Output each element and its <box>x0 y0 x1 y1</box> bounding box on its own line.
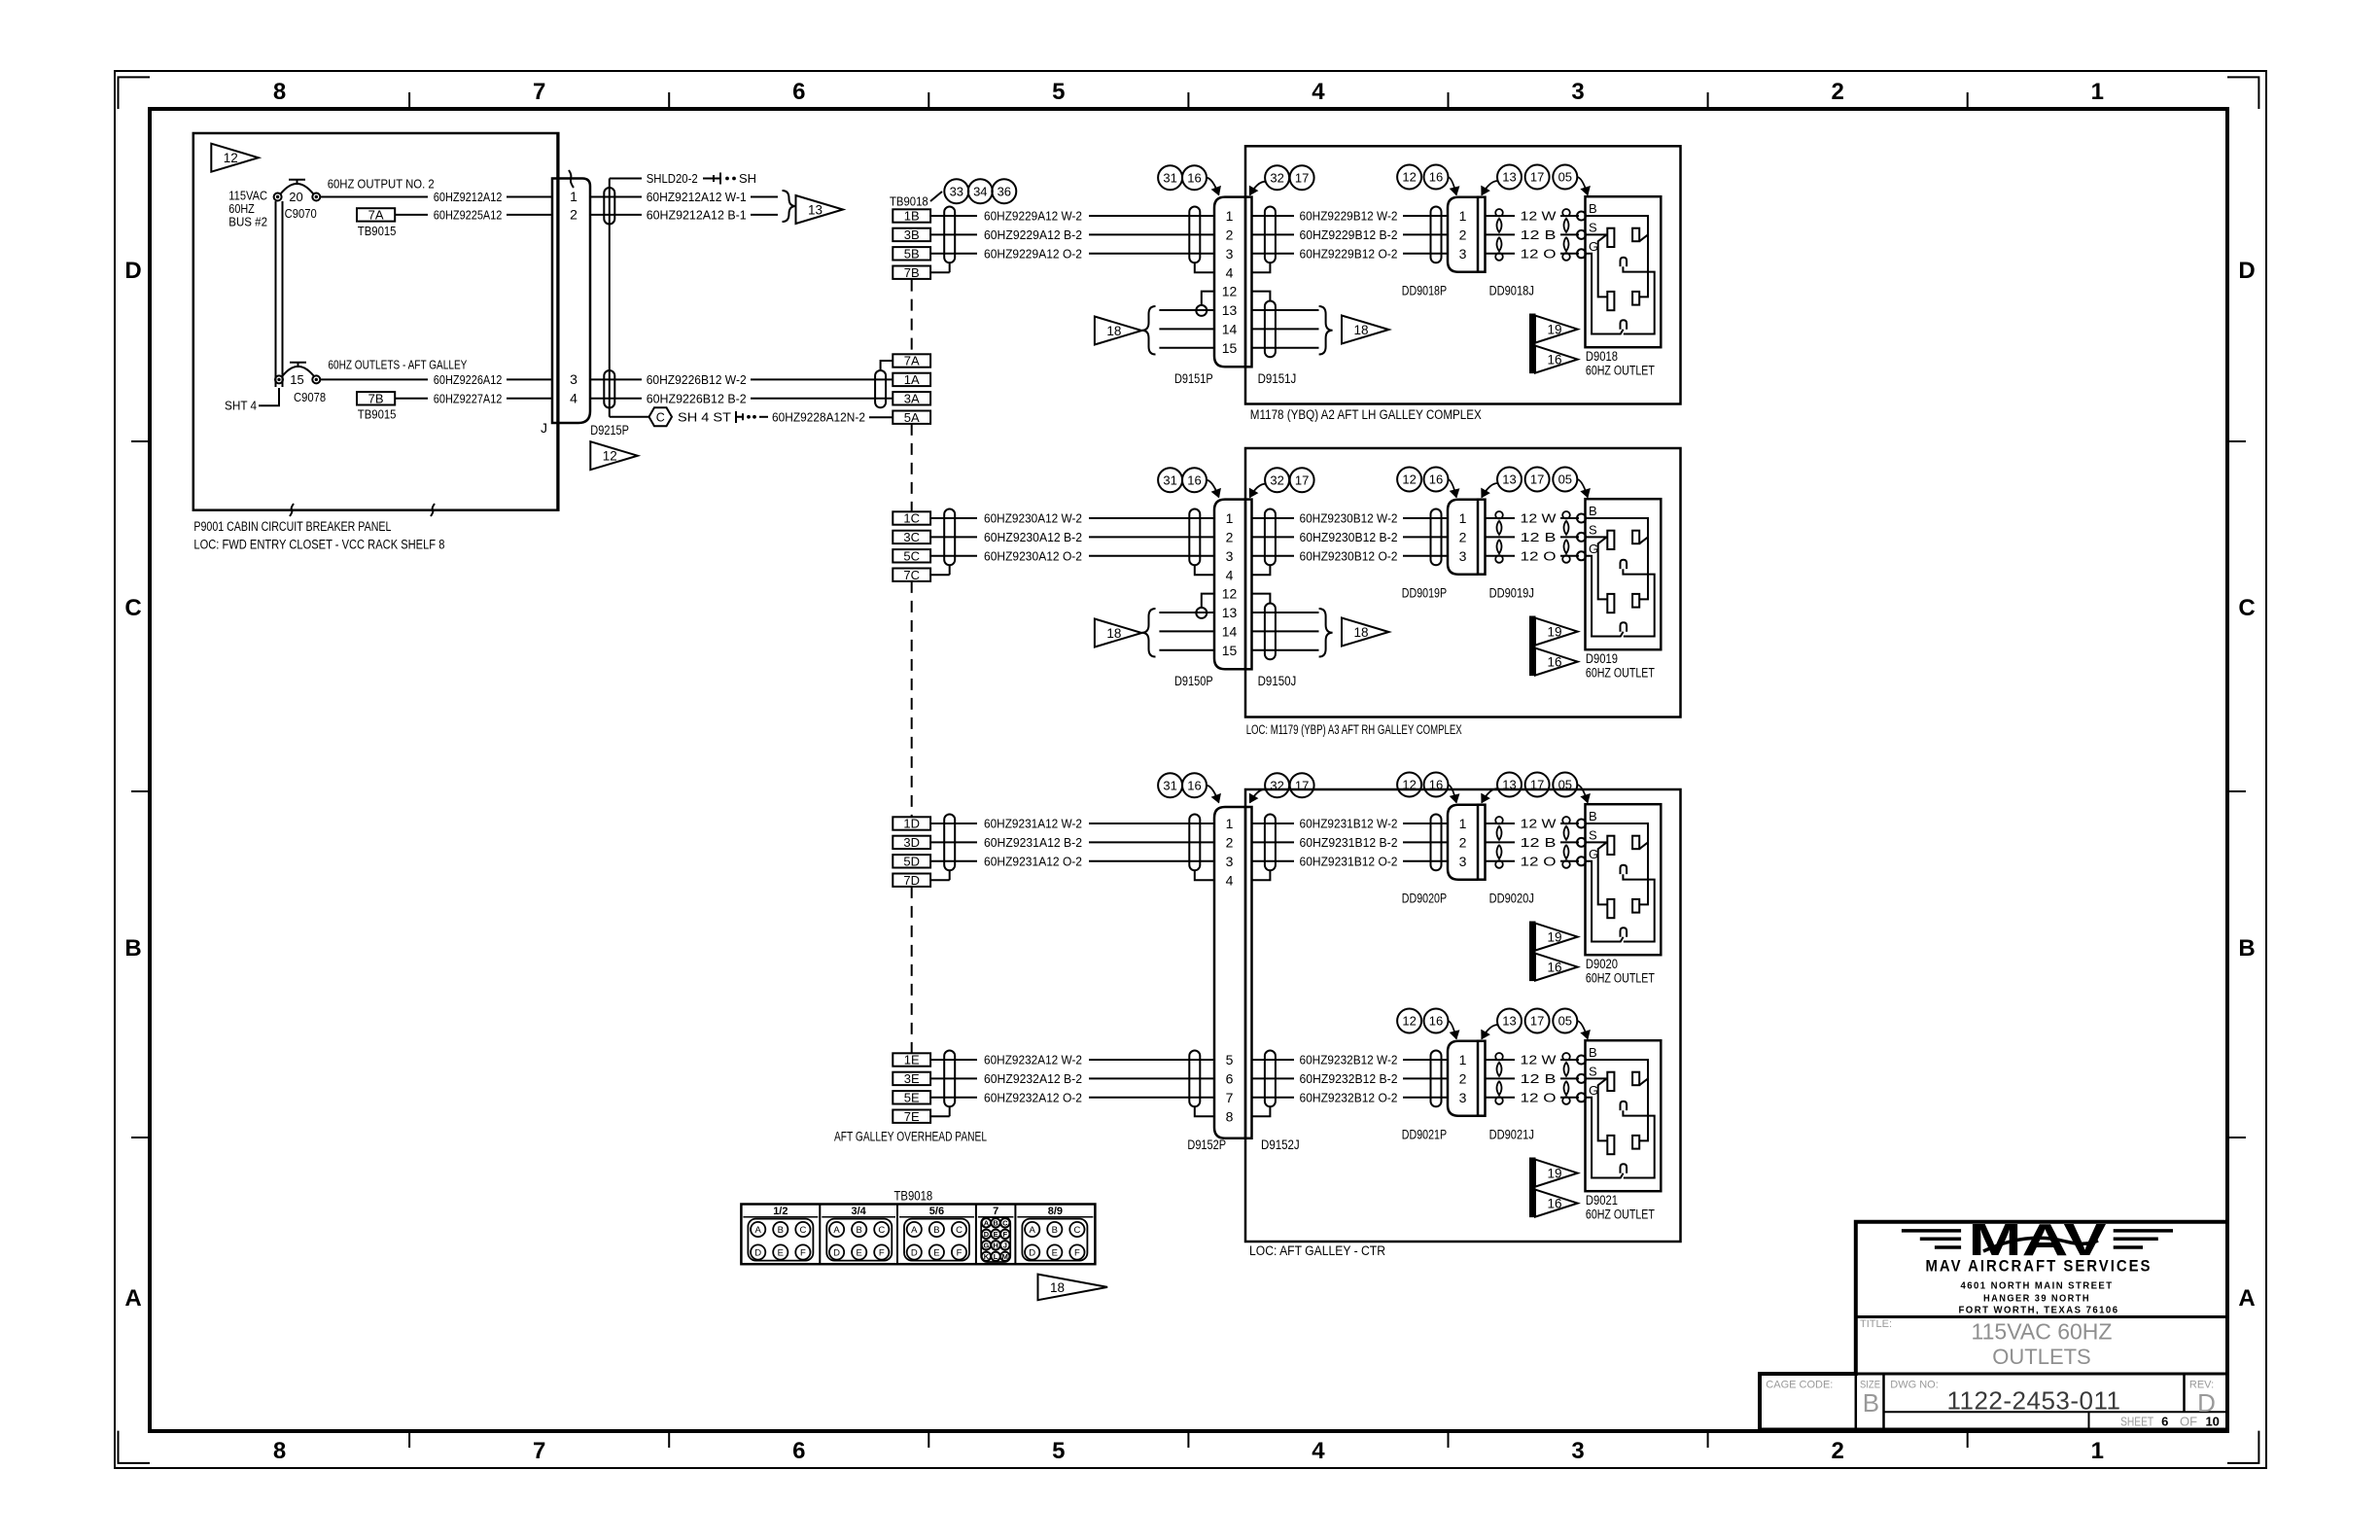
svg-text:16: 16 <box>1547 655 1561 670</box>
svg-text:60HZ9230B12 W-2: 60HZ9230B12 W-2 <box>1300 511 1398 526</box>
svg-text:1D: 1D <box>903 817 920 831</box>
svg-text:12: 12 <box>1402 1014 1416 1029</box>
svg-text:16: 16 <box>1547 1197 1561 1211</box>
svg-text:17: 17 <box>1530 472 1544 487</box>
terminal 7A <box>892 354 930 367</box>
svg-text:15: 15 <box>290 372 303 387</box>
svg-text:31: 31 <box>1163 472 1176 487</box>
wires 60HZ9231A12 group D <box>930 822 977 824</box>
svg-text:DWG NO:: DWG NO: <box>1890 1380 1939 1391</box>
svg-text:36: 36 <box>997 184 1011 198</box>
svg-text:7A: 7A <box>368 208 384 223</box>
svg-text:E: E <box>857 1247 862 1258</box>
svg-text:B: B <box>1863 1388 1879 1417</box>
svg-text:5A: 5A <box>904 410 920 425</box>
svg-text:1: 1 <box>1226 510 1234 526</box>
svg-text:17: 17 <box>1530 778 1544 792</box>
svg-text:18: 18 <box>1353 323 1368 337</box>
svg-text:4: 4 <box>1226 264 1234 280</box>
note flag 18 (D9150 right) <box>1342 618 1389 647</box>
svg-text:18: 18 <box>1050 1280 1065 1295</box>
svg-text:DD9020P: DD9020P <box>1402 892 1447 906</box>
galley complex box M1179 <box>1245 448 1681 717</box>
svg-text:1: 1 <box>1459 510 1467 526</box>
svg-text:12 W: 12 W <box>1521 1053 1557 1067</box>
svg-text:BUS #2: BUS #2 <box>228 215 267 229</box>
svg-text:M: M <box>1002 1252 1008 1261</box>
svg-text:3/4: 3/4 <box>852 1206 867 1217</box>
svg-text:32: 32 <box>1270 778 1283 792</box>
svg-text:60HZ9231B12 B-2: 60HZ9231B12 B-2 <box>1300 835 1398 850</box>
svg-text:60HZ9212A12: 60HZ9212A12 <box>434 190 503 204</box>
wire SHLD20-2 SH <box>610 178 642 180</box>
svg-text:10: 10 <box>2205 1415 2219 1429</box>
svg-text:D9150J: D9150J <box>1258 674 1297 688</box>
svg-text:8: 8 <box>273 1438 286 1464</box>
svg-text:1: 1 <box>1459 1052 1467 1067</box>
svg-text:7: 7 <box>533 79 545 105</box>
svg-text:C9070: C9070 <box>285 206 317 221</box>
svg-text:12 B: 12 B <box>1521 835 1557 850</box>
svg-text:1122-2453-011: 1122-2453-011 <box>1946 1386 2120 1416</box>
callouts 31 16 32 17 (D9151) <box>1158 165 1182 190</box>
shield J-side group B <box>1265 207 1276 263</box>
svg-text:7E: 7E <box>904 1109 920 1124</box>
svg-text:17: 17 <box>1530 1014 1544 1029</box>
svg-text:4: 4 <box>1226 872 1234 888</box>
note flags 19 16 (D9021) <box>1530 1158 1536 1217</box>
svg-text:60HZ OUTLET: 60HZ OUTLET <box>1586 364 1655 378</box>
svg-text:16: 16 <box>1429 778 1443 792</box>
svg-text:C: C <box>2238 595 2255 621</box>
P9001 cabin circuit breaker panel box <box>193 133 559 510</box>
svg-text:D: D <box>2197 1388 2216 1417</box>
callouts 12 16 13 17 05 (DD9019) <box>1397 468 1421 492</box>
terminal 5A <box>892 411 930 424</box>
svg-text:D: D <box>1029 1247 1035 1258</box>
svg-text:D9019: D9019 <box>1586 651 1618 666</box>
svg-text:H: H <box>993 1242 997 1250</box>
svg-text:3: 3 <box>1459 1090 1467 1105</box>
svg-text:E: E <box>933 1247 939 1258</box>
note flags 19 16 (D9019) <box>1530 616 1536 676</box>
note flag 18 (TB9018) <box>1038 1275 1108 1301</box>
svg-text:60HZ9229B12 W-2: 60HZ9229B12 W-2 <box>1300 209 1398 224</box>
circuit breaker C9070 <box>274 193 282 201</box>
svg-text:7B: 7B <box>904 265 920 280</box>
svg-text:5: 5 <box>1052 1438 1065 1464</box>
svg-text:16: 16 <box>1187 778 1201 792</box>
svg-text:LOC: M1179 (YBP) A3 AFT RH GA: LOC: M1179 (YBP) A3 AFT RH GALLEY COMPLE… <box>1246 722 1462 737</box>
svg-text:12 O: 12 O <box>1521 854 1557 868</box>
svg-text:F: F <box>1003 1230 1008 1239</box>
svg-text:33: 33 <box>950 184 963 198</box>
svg-text:OUTLETS: OUTLETS <box>1992 1345 2090 1369</box>
svg-text:60HZ9231A12 B-2: 60HZ9231A12 B-2 <box>984 835 1082 850</box>
svg-text:D: D <box>754 1247 761 1258</box>
svg-text:5B: 5B <box>904 247 920 262</box>
svg-text:C: C <box>1073 1225 1080 1236</box>
svg-text:G: G <box>1589 1083 1598 1098</box>
svg-text:CAGE CODE:: CAGE CODE: <box>1766 1380 1833 1391</box>
svg-text:B: B <box>1589 201 1597 216</box>
svg-text:3: 3 <box>1571 1438 1584 1464</box>
svg-text:60HZ OUTLET: 60HZ OUTLET <box>1586 1207 1655 1222</box>
svg-text:DD9019J: DD9019J <box>1489 586 1534 601</box>
svg-text:4: 4 <box>1226 567 1234 582</box>
svg-text:4: 4 <box>570 391 577 406</box>
pins 12-15 J-side D9151 <box>1252 292 1271 301</box>
svg-text:16: 16 <box>1429 1014 1443 1029</box>
callouts 12 16 13 17 05 (DD9018) <box>1397 165 1421 190</box>
svg-text:G: G <box>1589 847 1598 861</box>
wire 60HZ9227A12 (pin 4) <box>395 398 428 400</box>
svg-text:15: 15 <box>1222 340 1238 356</box>
svg-text:B: B <box>1589 504 1597 518</box>
svg-text:2: 2 <box>1459 835 1467 851</box>
svg-text:60HZ9230A12 W-2: 60HZ9230A12 W-2 <box>984 511 1082 526</box>
svg-text:B: B <box>778 1225 784 1236</box>
svg-text:3: 3 <box>1459 246 1467 262</box>
svg-text:A: A <box>911 1225 918 1236</box>
svg-text:12: 12 <box>1222 284 1238 299</box>
galley complex box AFT GALLEY CTR <box>1245 789 1681 1242</box>
svg-text:F: F <box>879 1247 885 1258</box>
svg-text:D9215P: D9215P <box>590 423 629 437</box>
terminal strip section 7 grid <box>981 1217 1010 1262</box>
note flags 19 16 (D9020) <box>1530 922 1536 981</box>
shield drain D9215P <box>609 179 611 417</box>
svg-text:60HZ9229B12 O-2: 60HZ9229B12 O-2 <box>1300 246 1398 261</box>
wire 60HZ9226A12 (pin 3) <box>320 378 428 380</box>
svg-text:5: 5 <box>1052 79 1065 105</box>
svg-text:D: D <box>124 258 141 284</box>
svg-text:7: 7 <box>1226 1090 1234 1105</box>
svg-text:12 B: 12 B <box>1521 1071 1557 1086</box>
wire 60HZ9212A12 (pin 1) <box>320 196 428 198</box>
svg-text:3A: 3A <box>904 392 920 406</box>
svg-text:12 B: 12 B <box>1521 227 1557 242</box>
svg-text:LOC: AFT GALLEY - CTR: LOC: AFT GALLEY - CTR <box>1249 1243 1385 1258</box>
svg-text:12 W: 12 W <box>1521 511 1557 526</box>
svg-text:DD9019P: DD9019P <box>1402 586 1447 601</box>
svg-text:12 W: 12 W <box>1521 817 1557 831</box>
svg-text:19: 19 <box>1547 625 1561 640</box>
svg-text:60HZ9226B12 W-2: 60HZ9226B12 W-2 <box>647 372 747 387</box>
svg-text:7C: 7C <box>903 568 920 582</box>
svg-text:8/9: 8/9 <box>1048 1206 1063 1217</box>
pins 12-15 J-side D9150 <box>1252 594 1271 604</box>
svg-text:S: S <box>1589 522 1597 537</box>
svg-text:S: S <box>1589 827 1597 842</box>
shield J-side group C <box>1265 509 1276 566</box>
svg-text:12 B: 12 B <box>1521 530 1557 544</box>
svg-text:A: A <box>2238 1285 2255 1312</box>
svg-text:F: F <box>800 1247 806 1258</box>
svg-text:1B: 1B <box>904 209 920 224</box>
svg-text:60HZ9229A12 O-2: 60HZ9229A12 O-2 <box>984 246 1082 261</box>
note flags 19 16 (D9018) <box>1530 314 1536 373</box>
bundle callout 36 <box>992 179 1016 203</box>
svg-text:5/6: 5/6 <box>929 1206 944 1217</box>
svg-text:E: E <box>778 1247 784 1258</box>
pins 12-15 wiring D9150 <box>1202 594 1214 608</box>
svg-text:60HZ9229A12 W-2: 60HZ9229A12 W-2 <box>984 209 1082 224</box>
outlet D9018 <box>1581 215 1583 217</box>
svg-text:8: 8 <box>1226 1108 1234 1124</box>
svg-text:1: 1 <box>1459 208 1467 224</box>
svg-text:1/2: 1/2 <box>773 1206 787 1217</box>
svg-text:18: 18 <box>1106 324 1121 338</box>
svg-text:F: F <box>1074 1247 1080 1258</box>
svg-text:60HZ9231B12 W-2: 60HZ9231B12 W-2 <box>1300 817 1398 831</box>
svg-text:60HZ9226A12: 60HZ9226A12 <box>434 372 503 387</box>
svg-text:6: 6 <box>1226 1071 1234 1087</box>
svg-text:1A: 1A <box>904 372 920 387</box>
svg-text:15: 15 <box>1222 643 1238 658</box>
svg-text:12: 12 <box>603 449 617 464</box>
svg-text:7: 7 <box>533 1438 545 1464</box>
circuit breaker C9078 <box>275 375 283 383</box>
terminals 1D 3D 5D 7D <box>892 817 930 829</box>
svg-text:6: 6 <box>792 79 805 105</box>
svg-text:1: 1 <box>1226 816 1234 831</box>
svg-text:5: 5 <box>1226 1052 1234 1067</box>
svg-text:B: B <box>124 935 141 962</box>
svg-text:SH: SH <box>739 171 756 186</box>
svg-text:3: 3 <box>1226 854 1234 869</box>
svg-text:D9150P: D9150P <box>1174 674 1213 688</box>
svg-text:2: 2 <box>1459 530 1467 545</box>
svg-text:DD9018J: DD9018J <box>1489 284 1534 298</box>
note flag 12 (panel) <box>211 144 258 172</box>
svg-text:MAV AIRCRAFT SERVICES: MAV AIRCRAFT SERVICES <box>1926 1258 2152 1276</box>
svg-text:60HZ9232A12 B-2: 60HZ9232A12 B-2 <box>984 1071 1082 1086</box>
svg-text:60HZ9231A12 O-2: 60HZ9231A12 O-2 <box>984 854 1082 868</box>
svg-text:8: 8 <box>273 79 286 105</box>
svg-text:C: C <box>878 1225 885 1236</box>
svg-text:DD9018P: DD9018P <box>1402 284 1447 298</box>
svg-text:1: 1 <box>2091 79 2104 105</box>
svg-text:60HZ9230B12 B-2: 60HZ9230B12 B-2 <box>1300 530 1398 544</box>
splice C hexagon <box>610 416 649 418</box>
svg-text:17: 17 <box>1295 170 1309 185</box>
svg-text:12: 12 <box>1222 586 1238 602</box>
svg-text:17: 17 <box>1295 472 1309 487</box>
svg-text:60HZ9229A12 B-2: 60HZ9229A12 B-2 <box>984 227 1082 242</box>
svg-text:12 O: 12 O <box>1521 246 1557 261</box>
svg-text:16: 16 <box>1429 472 1443 487</box>
callouts 12 16 13 17 05 (DD9020) <box>1397 773 1421 797</box>
terminals 1C 3C 5C 7C <box>892 511 930 524</box>
svg-text:60HZ9232A12 W-2: 60HZ9232A12 W-2 <box>984 1053 1082 1067</box>
svg-text:34: 34 <box>973 184 987 198</box>
svg-text:7B: 7B <box>368 392 384 406</box>
svg-text:F: F <box>957 1247 962 1258</box>
svg-text:G: G <box>983 1242 989 1250</box>
svg-text:60HZ9232B12 B-2: 60HZ9232B12 B-2 <box>1300 1071 1398 1086</box>
svg-text:13: 13 <box>808 203 822 218</box>
svg-text:5D: 5D <box>903 855 920 869</box>
svg-text:3: 3 <box>1226 548 1234 564</box>
svg-text:B: B <box>1589 1045 1597 1060</box>
callouts 12 16 13 17 05 (DD9021) <box>1397 1009 1421 1033</box>
svg-text:FORT WORTH, TEXAS 76106: FORT WORTH, TEXAS 76106 <box>1959 1305 2119 1316</box>
svg-text:60HZ9227A12: 60HZ9227A12 <box>434 391 503 405</box>
svg-text:6: 6 <box>2161 1415 2168 1429</box>
svg-text:LOC: FWD ENTRY CLOSET - VCC RA: LOC: FWD ENTRY CLOSET - VCC RACK SHELF 8 <box>193 538 444 552</box>
svg-text:16: 16 <box>1547 961 1561 975</box>
svg-text:12: 12 <box>1402 472 1416 487</box>
svg-text:C: C <box>956 1225 962 1236</box>
svg-text:2: 2 <box>1226 227 1234 243</box>
svg-text:13: 13 <box>1222 302 1238 318</box>
svg-text:D: D <box>833 1247 840 1258</box>
svg-text:A: A <box>984 1219 990 1228</box>
svg-text:60HZ9231A12 W-2: 60HZ9231A12 W-2 <box>984 817 1082 831</box>
svg-text:D9152J: D9152J <box>1261 1137 1300 1152</box>
svg-text:60HZ OUTLET: 60HZ OUTLET <box>1586 666 1655 681</box>
wire 60HZ9225A12 (pin 2) <box>395 214 428 216</box>
DD9020 connectors and wires <box>1252 822 1295 824</box>
svg-text:12: 12 <box>1402 170 1416 185</box>
svg-text:60HZ9212A12 B-1: 60HZ9212A12 B-1 <box>647 207 747 222</box>
svg-text:17: 17 <box>1295 778 1309 792</box>
svg-text:2: 2 <box>1226 835 1234 851</box>
outlet D9020 <box>1586 804 1662 955</box>
svg-text:2: 2 <box>1226 530 1234 545</box>
svg-text:18: 18 <box>1106 626 1121 641</box>
svg-text:7A: 7A <box>904 354 920 368</box>
svg-text:4601 NORTH MAIN STREET: 4601 NORTH MAIN STREET <box>1961 1280 2114 1292</box>
svg-text:OF: OF <box>2180 1415 2197 1429</box>
svg-text:6: 6 <box>792 1438 805 1464</box>
brace pins 1-2 <box>783 191 796 222</box>
svg-text:16: 16 <box>1429 170 1443 185</box>
svg-text:DD9020J: DD9020J <box>1489 892 1534 906</box>
wires 60HZ9232A12 group E <box>930 1059 977 1061</box>
svg-text:60HZ9229B12 B-2: 60HZ9229B12 B-2 <box>1300 227 1398 242</box>
outlet D9021 <box>1586 1040 1662 1191</box>
svg-text:L: L <box>994 1252 998 1261</box>
svg-text:60HZ OUTLETS - AFT GALLEY: 60HZ OUTLETS - AFT GALLEY <box>328 358 467 372</box>
svg-text:13: 13 <box>1502 778 1516 792</box>
svg-text:32: 32 <box>1270 170 1283 185</box>
connector D9150P/D9150J <box>1214 500 1245 670</box>
svg-text:2: 2 <box>1459 1071 1467 1087</box>
svg-text:A: A <box>1030 1225 1036 1236</box>
svg-text:20: 20 <box>289 190 302 204</box>
svg-text:60HZ9228A12N-2: 60HZ9228A12N-2 <box>772 409 865 424</box>
terminals 1B 3B 5B 7B <box>892 209 930 222</box>
svg-text:1: 1 <box>2091 1438 2104 1464</box>
svg-text:60HZ9232A12 O-2: 60HZ9232A12 O-2 <box>984 1090 1082 1104</box>
shield J-side group D <box>1265 815 1276 871</box>
svg-text:2: 2 <box>1831 79 1843 105</box>
svg-text:19: 19 <box>1547 930 1561 945</box>
svg-text:E: E <box>1052 1247 1058 1258</box>
DD9019 connectors and wires <box>1252 517 1295 519</box>
svg-text:C: C <box>1002 1219 1008 1228</box>
note flag 13 <box>796 195 844 224</box>
svg-text:3C: 3C <box>903 530 920 544</box>
terminal block TB9015 7A <box>357 208 395 221</box>
svg-text:C: C <box>799 1225 806 1236</box>
svg-text:G: G <box>1589 239 1598 254</box>
svg-text:12 O: 12 O <box>1521 548 1557 563</box>
svg-text:C9078: C9078 <box>294 390 326 404</box>
svg-text:HANGER 39 NORTH: HANGER 39 NORTH <box>1983 1292 2090 1304</box>
svg-text:S: S <box>1589 1064 1597 1078</box>
svg-text:AFT GALLEY OVERHEAD PANEL: AFT GALLEY OVERHEAD PANEL <box>834 1129 987 1143</box>
svg-text:16: 16 <box>1547 353 1561 367</box>
svg-text:SHT 4: SHT 4 <box>225 399 257 413</box>
svg-text:13: 13 <box>1222 605 1238 620</box>
svg-text:60HZ OUTPUT NO. 2: 60HZ OUTPUT NO. 2 <box>328 176 435 191</box>
terminal block TB9015 7B <box>357 392 395 404</box>
svg-text:5C: 5C <box>903 549 920 564</box>
svg-text:B: B <box>1589 809 1597 823</box>
connector D9151P/D9151J <box>1214 197 1245 367</box>
svg-text:16: 16 <box>1187 170 1201 185</box>
svg-text:19: 19 <box>1547 1167 1561 1181</box>
note flag 18 (D9151 left) <box>1095 317 1142 345</box>
terminal 1A <box>892 373 930 386</box>
shield ferrule group A <box>875 370 886 407</box>
svg-text:C: C <box>656 410 665 424</box>
svg-text:12 W: 12 W <box>1521 209 1557 224</box>
svg-text:60HZ9230A12 O-2: 60HZ9230A12 O-2 <box>984 548 1082 563</box>
note flag 12 (below D9215P) <box>590 441 638 470</box>
svg-text:12: 12 <box>224 151 238 165</box>
svg-text:3D: 3D <box>903 835 920 850</box>
svg-text:D: D <box>984 1230 990 1239</box>
svg-text:31: 31 <box>1163 170 1176 185</box>
svg-text:60HZ9225A12: 60HZ9225A12 <box>434 207 503 222</box>
svg-text:TB9018: TB9018 <box>890 194 928 209</box>
svg-text:D9151P: D9151P <box>1174 371 1213 386</box>
svg-text:TITLE:: TITLE: <box>1860 1318 1892 1330</box>
svg-text:7D: 7D <box>903 873 920 888</box>
connector D9215P <box>552 179 590 424</box>
svg-text:17: 17 <box>1530 170 1544 185</box>
svg-text:4: 4 <box>1312 1438 1325 1464</box>
svg-text:2: 2 <box>1831 1438 1843 1464</box>
svg-text:13: 13 <box>1502 170 1516 185</box>
svg-text:SHLD20-2: SHLD20-2 <box>647 171 698 186</box>
svg-text:3: 3 <box>1571 79 1584 105</box>
svg-text:7: 7 <box>993 1206 998 1217</box>
svg-text:60HZ9212A12 W-1: 60HZ9212A12 W-1 <box>647 190 747 204</box>
svg-text:12 O: 12 O <box>1521 1090 1557 1104</box>
DD9021 connectors and wires <box>1252 1059 1295 1061</box>
terminals 1E 3E 5E 7E <box>892 1053 930 1066</box>
svg-text:1E: 1E <box>904 1053 920 1067</box>
terminal 3A <box>892 392 930 404</box>
svg-text:60HZ9226B12 B-2: 60HZ9226B12 B-2 <box>647 391 747 405</box>
svg-text:18: 18 <box>1353 625 1368 640</box>
svg-text:C: C <box>124 595 141 621</box>
svg-text:G: G <box>1589 542 1598 556</box>
wire 60HZ9212A12 B-1 <box>590 214 642 216</box>
svg-text:1: 1 <box>1226 208 1234 224</box>
svg-text:13: 13 <box>1502 472 1516 487</box>
svg-text:3E: 3E <box>904 1071 920 1086</box>
wires 60HZ9229A12 group B <box>930 215 977 217</box>
dashed jumper line TB9018 column <box>911 280 913 355</box>
bundle callout 33 <box>944 179 968 203</box>
svg-text:A: A <box>755 1225 762 1236</box>
